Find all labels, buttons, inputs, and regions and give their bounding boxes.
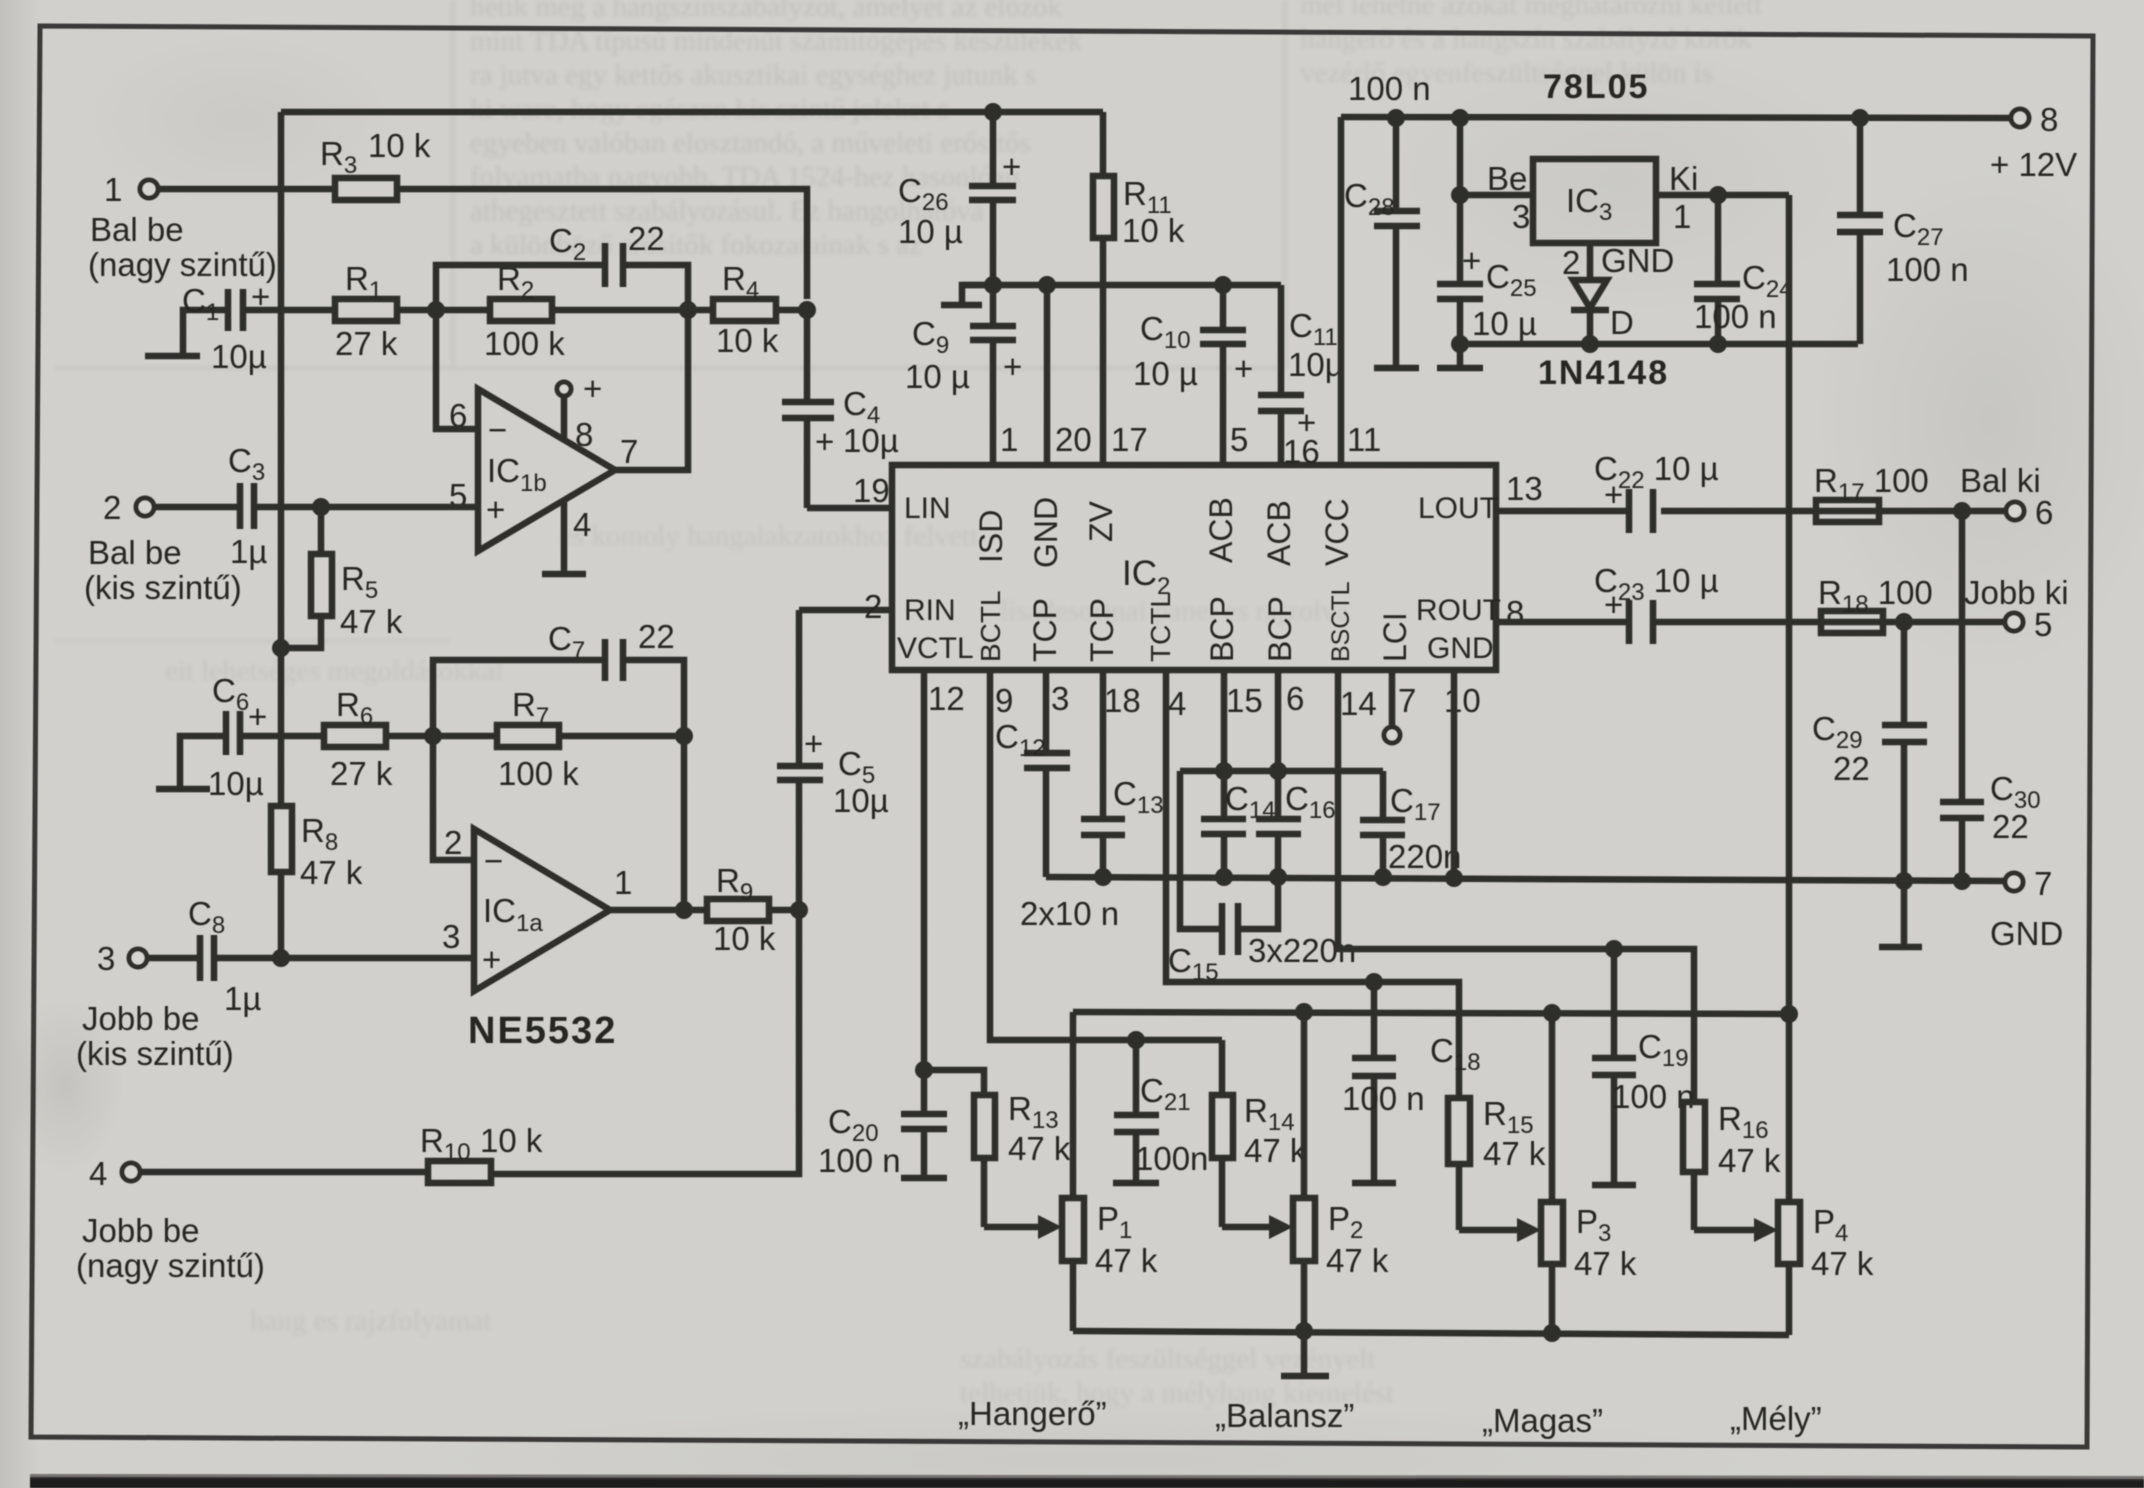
wire TCTL pin 4 column bbox=[1166, 670, 1459, 1098]
terminal 4 (Jobb be nagy szintu) bbox=[76, 1155, 265, 1284]
capacitor C20 bbox=[818, 1070, 947, 1179]
node C17 on bus bbox=[1374, 868, 1392, 886]
svg-text:+: + bbox=[482, 941, 501, 978]
wire supply row y285 bbox=[962, 282, 1281, 289]
IC U2 main box (IC2 TDA1524) bbox=[892, 465, 1501, 670]
wire local GND rail bbox=[1460, 341, 1858, 348]
wire LOUT pin13 to output bbox=[1496, 508, 2007, 515]
ground stub below C25 bbox=[1437, 344, 1483, 368]
svg-text:220n: 220n bbox=[1388, 838, 1461, 875]
svg-text:10 µ: 10 µ bbox=[898, 213, 963, 250]
svg-text:Bal be: Bal be bbox=[88, 534, 182, 571]
svg-text:„Balansz”: „Balansz” bbox=[1215, 1397, 1354, 1434]
resistor R14 bbox=[1212, 1040, 1307, 1227]
capacitor C12 bbox=[995, 670, 1070, 877]
wire node E down to R10 bbox=[491, 910, 799, 1174]
ground under C6 bbox=[156, 736, 226, 789]
svg-text:78L05: 78L05 bbox=[1543, 68, 1649, 106]
capacitor C10 bbox=[1133, 285, 1253, 465]
node C14 on bus bbox=[1215, 868, 1233, 886]
svg-text:VCTL: VCTL bbox=[897, 632, 974, 665]
svg-text:5: 5 bbox=[1230, 421, 1248, 458]
svg-text:(kis szintű): (kis szintű) bbox=[84, 569, 242, 606]
node P3 bottom junction bbox=[1543, 1324, 1561, 1342]
svg-text:+: + bbox=[815, 423, 834, 460]
svg-text:ZV: ZV bbox=[1083, 500, 1119, 542]
svg-text:Bal ki: Bal ki bbox=[1960, 462, 2041, 499]
svg-text:LIN: LIN bbox=[904, 492, 951, 525]
node bias junction R5/R8 bbox=[272, 639, 290, 657]
wire IC1a output to node D bbox=[608, 907, 684, 914]
node A junction bbox=[427, 301, 445, 319]
svg-text:2x10 n: 2x10 n bbox=[1020, 895, 1119, 932]
svg-text:1N4148: 1N4148 bbox=[1538, 354, 1669, 392]
resistor R6 bbox=[324, 686, 393, 792]
svg-text:LCI: LCI bbox=[1377, 612, 1413, 662]
node C16 on bus bbox=[1269, 868, 1287, 886]
svg-text:7: 7 bbox=[620, 433, 638, 470]
svg-text:8: 8 bbox=[2040, 101, 2058, 138]
node C21 junction bbox=[1127, 1031, 1145, 1049]
svg-text:+: + bbox=[486, 491, 505, 528]
svg-text:10µ: 10µ bbox=[208, 765, 264, 802]
svg-text:4: 4 bbox=[1168, 685, 1186, 722]
wire C3 to IC1b pin 5 bbox=[254, 504, 478, 511]
svg-text:20: 20 bbox=[1055, 421, 1092, 458]
svg-text:19: 19 bbox=[853, 472, 890, 509]
svg-text:egyeben valóban elosztandó, a: egyeben valóban elosztandó, a műveleti e… bbox=[470, 127, 1031, 159]
svg-text:10 µ: 10 µ bbox=[1133, 355, 1198, 392]
svg-text:Jobb ki: Jobb ki bbox=[1964, 574, 2069, 611]
capacitor C21 bbox=[1113, 1040, 1208, 1183]
op-amp IC1b bbox=[449, 389, 638, 551]
capacitor C28 bbox=[1344, 70, 1431, 368]
resistor R4 bbox=[688, 260, 807, 359]
wire Ki to +5V node bbox=[1656, 192, 1789, 199]
svg-text:8: 8 bbox=[1506, 594, 1524, 631]
wire C1 to R1 bbox=[243, 307, 335, 314]
pin 7 LCI open terminal bbox=[1384, 670, 1400, 743]
node P2 top bbox=[1295, 1003, 1313, 1021]
svg-text:47 k: 47 k bbox=[1008, 1130, 1071, 1167]
wire C5 to RIN pin 2 bbox=[799, 607, 892, 614]
wire pin 10 GND column bbox=[1451, 670, 1458, 877]
svg-text:a különböző erősítők fokozatai: a különböző erősítők fokozatainak s az bbox=[470, 229, 922, 261]
wire Be to IC3 bbox=[1460, 192, 1533, 199]
svg-text:ACB: ACB bbox=[1203, 497, 1239, 563]
svg-text:10 k: 10 k bbox=[716, 322, 779, 359]
node C28 top bbox=[1387, 109, 1405, 127]
svg-text:(kis szintű): (kis szintű) bbox=[76, 1035, 234, 1072]
svg-text:47 k: 47 k bbox=[300, 854, 363, 891]
node C24 top bbox=[1709, 186, 1727, 204]
svg-text:TCP: TCP bbox=[1027, 598, 1063, 662]
svg-text:GND: GND bbox=[1427, 632, 1494, 665]
IC1b pin 8 supply bbox=[557, 370, 602, 453]
svg-text:3: 3 bbox=[1051, 680, 1069, 717]
wire input1 to R3 bbox=[158, 186, 335, 193]
bracket wire C14/C16/C17 top row bbox=[1180, 768, 1383, 775]
svg-text:100 n: 100 n bbox=[1694, 298, 1777, 335]
node C30 top junction bbox=[1953, 502, 1971, 520]
svg-text:+: + bbox=[1297, 404, 1316, 441]
capacitor C11 bbox=[1258, 285, 1344, 465]
svg-text:100 k: 100 k bbox=[498, 755, 579, 792]
resistor R11 bbox=[1093, 112, 1185, 465]
capacitor C27 bbox=[1837, 118, 1969, 344]
wire IC1b output to feedback node bbox=[613, 310, 688, 470]
svg-text:GND: GND bbox=[1028, 497, 1064, 568]
svg-text:hang es rajzfolyamat: hang es rajzfolyamat bbox=[250, 1305, 492, 1337]
svg-text:+: + bbox=[804, 725, 823, 762]
ground under C1 bbox=[145, 310, 228, 356]
node P2 bottom junction bbox=[1295, 1322, 1313, 1340]
svg-text:47 k: 47 k bbox=[1811, 1245, 1874, 1282]
svg-text:TCTL: TCTL bbox=[1145, 592, 1176, 662]
wire node A to IC1b pin 6 bbox=[436, 310, 478, 429]
svg-text:ISD: ISD bbox=[973, 510, 1009, 563]
svg-text:100n: 100n bbox=[1135, 1140, 1208, 1177]
capacitor C13 bbox=[1081, 670, 1164, 877]
resistor R5 bbox=[281, 507, 403, 648]
resistor R15 bbox=[1448, 1095, 1546, 1230]
svg-text:Bal be: Bal be bbox=[90, 211, 184, 248]
wire input3 to C8 bbox=[147, 955, 200, 962]
resistor R3 bbox=[320, 127, 431, 200]
op-amp IC1a bbox=[442, 824, 632, 991]
resistor R10 bbox=[420, 1122, 543, 1183]
node E junction (R9/R10/C5) bbox=[790, 901, 808, 919]
resistor R16 bbox=[1683, 1100, 1781, 1230]
capacitor C5 bbox=[777, 610, 889, 910]
svg-text:GND: GND bbox=[1990, 915, 2063, 952]
svg-text:VCC: VCC bbox=[1319, 498, 1355, 566]
node C29 top junction bbox=[1895, 613, 1913, 631]
svg-text:„Magas”: „Magas” bbox=[1482, 1402, 1603, 1439]
svg-text:GND: GND bbox=[1601, 242, 1674, 279]
svg-text:47 k: 47 k bbox=[1244, 1132, 1307, 1169]
node C26 top junction on ZV rail bbox=[984, 103, 1002, 121]
node +5V bus end bbox=[1780, 1005, 1798, 1023]
svg-text:7: 7 bbox=[2034, 865, 2052, 902]
terminal 2 (Bal be kis szintu) bbox=[84, 489, 242, 606]
node feedback junction bbox=[679, 301, 697, 319]
wire input2 to C3 bbox=[154, 504, 240, 511]
IC U3 regulator 78L05 (IC3) bbox=[1487, 159, 1698, 243]
terminal 3 (Jobb be kis szintu) bbox=[76, 940, 234, 1072]
resistor R1 bbox=[335, 260, 398, 362]
svg-text:NE5532: NE5532 bbox=[468, 1010, 617, 1052]
terminal 7 (GND) bbox=[1990, 865, 2063, 952]
svg-text:+: + bbox=[1002, 148, 1021, 185]
node C24 bottom bbox=[1709, 335, 1727, 353]
svg-text:szabályozás feszültséggel vezé: szabályozás feszültséggel vezényelt bbox=[960, 1343, 1375, 1375]
svg-text:BCP: BCP bbox=[1204, 596, 1240, 662]
capacitor C23 bbox=[1594, 562, 1719, 644]
svg-text:Jobb be: Jobb be bbox=[82, 1212, 199, 1249]
ground below P2 bbox=[1281, 1331, 1329, 1376]
node D junction bbox=[675, 901, 693, 919]
svg-text:2: 2 bbox=[864, 588, 882, 625]
node R5 top junction bbox=[312, 498, 330, 516]
wire R3 to node B bbox=[397, 189, 807, 299]
svg-text:100 n: 100 n bbox=[1886, 251, 1969, 288]
resistor R9 bbox=[684, 862, 799, 957]
svg-text:+: + bbox=[1234, 350, 1253, 387]
svg-text:10 k: 10 k bbox=[480, 1122, 543, 1159]
capacitor C7 with bracket bbox=[433, 618, 684, 736]
capacitor C26 bbox=[898, 114, 1021, 285]
svg-text:Jobb be: Jobb be bbox=[82, 1000, 199, 1037]
svg-text:10µ: 10µ bbox=[843, 422, 899, 459]
svg-text:47 k: 47 k bbox=[340, 603, 403, 640]
svg-text:5: 5 bbox=[2034, 606, 2052, 643]
svg-text:3: 3 bbox=[442, 918, 460, 955]
svg-text:LOUT: LOUT bbox=[1418, 492, 1498, 525]
svg-text:12: 12 bbox=[928, 680, 965, 717]
node C29 on GND bus bbox=[1895, 872, 1913, 890]
capacitor C18 bbox=[1342, 982, 1481, 1183]
svg-text:10µ: 10µ bbox=[1288, 346, 1344, 383]
node VCTL junction bbox=[915, 1061, 933, 1079]
svg-text:10 k: 10 k bbox=[713, 920, 776, 957]
svg-text:+: + bbox=[1604, 586, 1623, 623]
node C10 junction bbox=[1214, 276, 1232, 294]
potentiometer P3 bbox=[1459, 1013, 1637, 1333]
GND bus wire bbox=[1046, 877, 2006, 881]
wire node C to IC1a pin 2 bbox=[433, 736, 474, 860]
svg-text:mel lehetne azokat meghatározn: mel lehetne azokat meghatározni kellett bbox=[1300, 0, 1762, 21]
svg-text:BCP: BCP bbox=[1262, 596, 1298, 662]
wire node IC1a out to C7 bracket bbox=[681, 736, 688, 910]
svg-text:13: 13 bbox=[1506, 470, 1543, 507]
node C30 on GND bus bbox=[1953, 872, 1971, 890]
svg-text:hetik meg a hangszínszabályzót: hetik meg a hangszínszabályzót, amelyet … bbox=[470, 0, 1062, 23]
svg-text:RIN: RIN bbox=[904, 594, 956, 627]
svg-text:27 k: 27 k bbox=[335, 325, 398, 362]
node pin6 on bracket bbox=[1269, 762, 1287, 780]
node C27 top bbox=[1851, 109, 1869, 127]
node P3 top bbox=[1543, 1004, 1561, 1022]
capacitor C24 bbox=[1694, 195, 1793, 344]
resistor R18 bbox=[1818, 574, 1933, 633]
resistor R2 bbox=[436, 260, 688, 362]
wire VCTL to R13 bbox=[924, 1070, 984, 1095]
svg-text:„Mély”: „Mély” bbox=[1730, 1400, 1822, 1437]
wire +12V rail bbox=[1341, 117, 2012, 118]
svg-text:10 µ: 10 µ bbox=[905, 358, 970, 395]
ground hook at ISD node bbox=[941, 285, 993, 305]
svg-text:10µ: 10µ bbox=[833, 782, 889, 819]
svg-text:D: D bbox=[1610, 304, 1634, 341]
svg-text:10: 10 bbox=[1444, 682, 1481, 719]
svg-text:100 n: 100 n bbox=[1348, 70, 1431, 107]
svg-text:14: 14 bbox=[1340, 685, 1377, 722]
svg-text:hangerő és a hangszín szabályz: hangerő és a hangszín szabályzó körök bbox=[1300, 23, 1752, 55]
svg-text:„Hangerő”: „Hangerő” bbox=[958, 1395, 1107, 1432]
wire pin 20 bbox=[1044, 285, 1051, 465]
node C13 on bus bbox=[1094, 868, 1112, 886]
svg-text:4: 4 bbox=[89, 1155, 107, 1192]
node Be top junction bbox=[1451, 109, 1469, 127]
terminal 8 (+12V) bbox=[1990, 101, 2077, 183]
svg-text:1µ: 1µ bbox=[230, 533, 267, 570]
svg-text:100 k: 100 k bbox=[484, 325, 565, 362]
svg-text:+: + bbox=[1604, 476, 1623, 513]
potentiometer P1 bbox=[984, 1012, 1158, 1331]
svg-text:100 n: 100 n bbox=[818, 1142, 901, 1179]
svg-text:1: 1 bbox=[614, 864, 632, 901]
svg-text:47 k: 47 k bbox=[1095, 1242, 1158, 1279]
wire BCTL pin 9 column bbox=[990, 670, 1222, 1040]
svg-text:3: 3 bbox=[1512, 198, 1530, 235]
node C25 bottom bbox=[1451, 335, 1469, 353]
svg-text:10 µ: 10 µ bbox=[1472, 305, 1537, 342]
faint bleed table lines bbox=[55, 367, 1285, 370]
capacitor C3 bbox=[228, 442, 267, 570]
capacitor C15 with bracket bbox=[1168, 771, 1356, 986]
IC1b pin 4 ground bbox=[542, 500, 591, 574]
svg-text:22: 22 bbox=[1833, 750, 1870, 787]
svg-text:4: 4 bbox=[573, 506, 591, 543]
svg-text:47 k: 47 k bbox=[1483, 1135, 1546, 1172]
wire ZV rail top bbox=[281, 109, 1103, 116]
wire VCC pin 11 bbox=[1338, 117, 1345, 465]
potentiometer P4 bbox=[1694, 1014, 1874, 1335]
capacitor C9 bbox=[905, 285, 1022, 465]
svg-text:BSCTL: BSCTL bbox=[1327, 581, 1355, 662]
capacitor C16 bbox=[1256, 670, 1336, 877]
svg-text:1: 1 bbox=[1673, 198, 1691, 235]
svg-text:8: 8 bbox=[575, 416, 593, 453]
node ISD junction bbox=[984, 276, 1002, 294]
node C junction bbox=[424, 727, 442, 745]
svg-text:15: 15 bbox=[1226, 682, 1263, 719]
node diode bottom bbox=[1581, 335, 1599, 353]
wire BSCTL pin 14 column bbox=[1338, 670, 1694, 1102]
wire input4 to R10 bbox=[140, 1169, 428, 1176]
capacitor C1 bbox=[182, 278, 270, 375]
svg-text:47 k: 47 k bbox=[1574, 1245, 1637, 1282]
svg-text:1µ: 1µ bbox=[224, 980, 261, 1017]
svg-text:10 k: 10 k bbox=[368, 127, 431, 164]
svg-text:7: 7 bbox=[1398, 682, 1416, 719]
svg-text:22: 22 bbox=[628, 220, 665, 257]
wire +5V pot supply bus bbox=[1073, 1012, 1789, 1014]
svg-text:18: 18 bbox=[1104, 682, 1141, 719]
wire C8 to IC1a pin 3 bbox=[214, 955, 474, 962]
svg-text:47 k: 47 k bbox=[1718, 1142, 1781, 1179]
svg-text:TCP: TCP bbox=[1084, 598, 1120, 662]
terminal 5 (Jobb ki) bbox=[1964, 574, 2069, 643]
svg-text:Be: Be bbox=[1487, 160, 1527, 197]
node GND pin20 junction bbox=[1038, 276, 1056, 294]
svg-text:+: + bbox=[1462, 242, 1481, 279]
svg-text:2: 2 bbox=[1562, 244, 1580, 281]
svg-text:−: − bbox=[488, 411, 507, 448]
svg-text:ra jutva egy kettős akusztikai: ra jutva egy kettős akusztikai egységhez… bbox=[470, 59, 1036, 91]
resistor R8 bbox=[271, 806, 363, 958]
svg-text:6: 6 bbox=[1286, 680, 1304, 717]
capacitor C19 bbox=[1592, 949, 1695, 1185]
potentiometer P2 bbox=[1222, 1012, 1389, 1331]
svg-text:(nagy szintű): (nagy szintű) bbox=[76, 1247, 265, 1284]
wire ROUT pin8 to output bbox=[1496, 619, 2006, 626]
svg-text:47 k: 47 k bbox=[1326, 1242, 1389, 1279]
node IC1a output junction bbox=[675, 727, 693, 745]
svg-text:17: 17 bbox=[1111, 421, 1148, 458]
svg-text:2: 2 bbox=[444, 824, 462, 861]
capacitor C17 bbox=[1360, 771, 1461, 877]
wire R6 to node C bbox=[386, 733, 433, 740]
wire C6 to R6 bbox=[240, 733, 324, 740]
svg-text:1: 1 bbox=[104, 171, 122, 208]
svg-text:1: 1 bbox=[1000, 421, 1018, 458]
svg-text:ACB: ACB bbox=[1261, 500, 1297, 566]
wire pot bottom bus bbox=[1073, 1331, 1789, 1335]
resistor R17 bbox=[1814, 462, 1929, 522]
wire VCTL pin 12 column bbox=[921, 670, 928, 1070]
svg-text:9: 9 bbox=[995, 682, 1013, 719]
node C18 junction bbox=[1365, 973, 1383, 991]
capacitor C25 bbox=[1437, 242, 1537, 344]
capacitor C8 bbox=[188, 895, 261, 1017]
svg-text:27 k: 27 k bbox=[330, 755, 393, 792]
svg-text:Ki: Ki bbox=[1669, 160, 1698, 197]
node pin15 on bracket bbox=[1215, 762, 1233, 780]
node C19 junction bbox=[1605, 940, 1623, 958]
diode D 1N4148 bbox=[1562, 242, 1674, 344]
resistor R13 bbox=[974, 1090, 1071, 1227]
black page-edge bar at bottom bbox=[30, 1477, 2144, 1488]
svg-text:10 k: 10 k bbox=[1122, 212, 1185, 249]
capacitor C29 bbox=[1812, 622, 1927, 947]
svg-text:2: 2 bbox=[103, 489, 121, 526]
wire +5V vertical bbox=[1786, 195, 1793, 1014]
svg-text:22: 22 bbox=[638, 618, 675, 655]
wire Be vertical bbox=[1457, 118, 1464, 284]
capacitor C4 bbox=[782, 310, 899, 508]
svg-text:ROUT: ROUT bbox=[1416, 594, 1501, 627]
capacitor C22 bbox=[1594, 450, 1719, 533]
svg-text:6: 6 bbox=[2035, 494, 2053, 531]
terminal 6 (Bal ki) bbox=[1960, 462, 2053, 531]
svg-text:−: − bbox=[484, 842, 503, 879]
capacitor C30 bbox=[1940, 511, 2041, 881]
svg-text:BCTL: BCTL bbox=[975, 590, 1006, 662]
svg-text:10µ: 10µ bbox=[211, 338, 267, 375]
terminal 1 (Bal be nagy szintu) bbox=[88, 171, 277, 283]
capacitor C6 bbox=[208, 672, 267, 802]
svg-text:+: + bbox=[583, 370, 602, 407]
capacitor C14 bbox=[1201, 670, 1276, 877]
node B junction bbox=[798, 301, 816, 319]
resistor R7 bbox=[433, 686, 684, 792]
svg-text:100 n: 100 n bbox=[1342, 1080, 1425, 1117]
wire bias vertical from ZV rail bbox=[278, 112, 285, 806]
svg-text:3: 3 bbox=[97, 940, 115, 977]
svg-text:+ 12V: + 12V bbox=[1990, 146, 2077, 183]
svg-text:11: 11 bbox=[1347, 421, 1381, 458]
svg-text:+: + bbox=[1003, 348, 1022, 385]
node pin10 on bus bbox=[1445, 869, 1463, 887]
capacitor C2 with bracket bbox=[436, 220, 688, 310]
wire C4 to LIN pin 19 bbox=[807, 505, 892, 512]
svg-text:+: + bbox=[248, 698, 267, 735]
node R8 bottom junction bbox=[272, 949, 290, 967]
node Be junction bbox=[1451, 186, 1469, 204]
svg-text:(nagy szintű): (nagy szintű) bbox=[88, 246, 277, 283]
